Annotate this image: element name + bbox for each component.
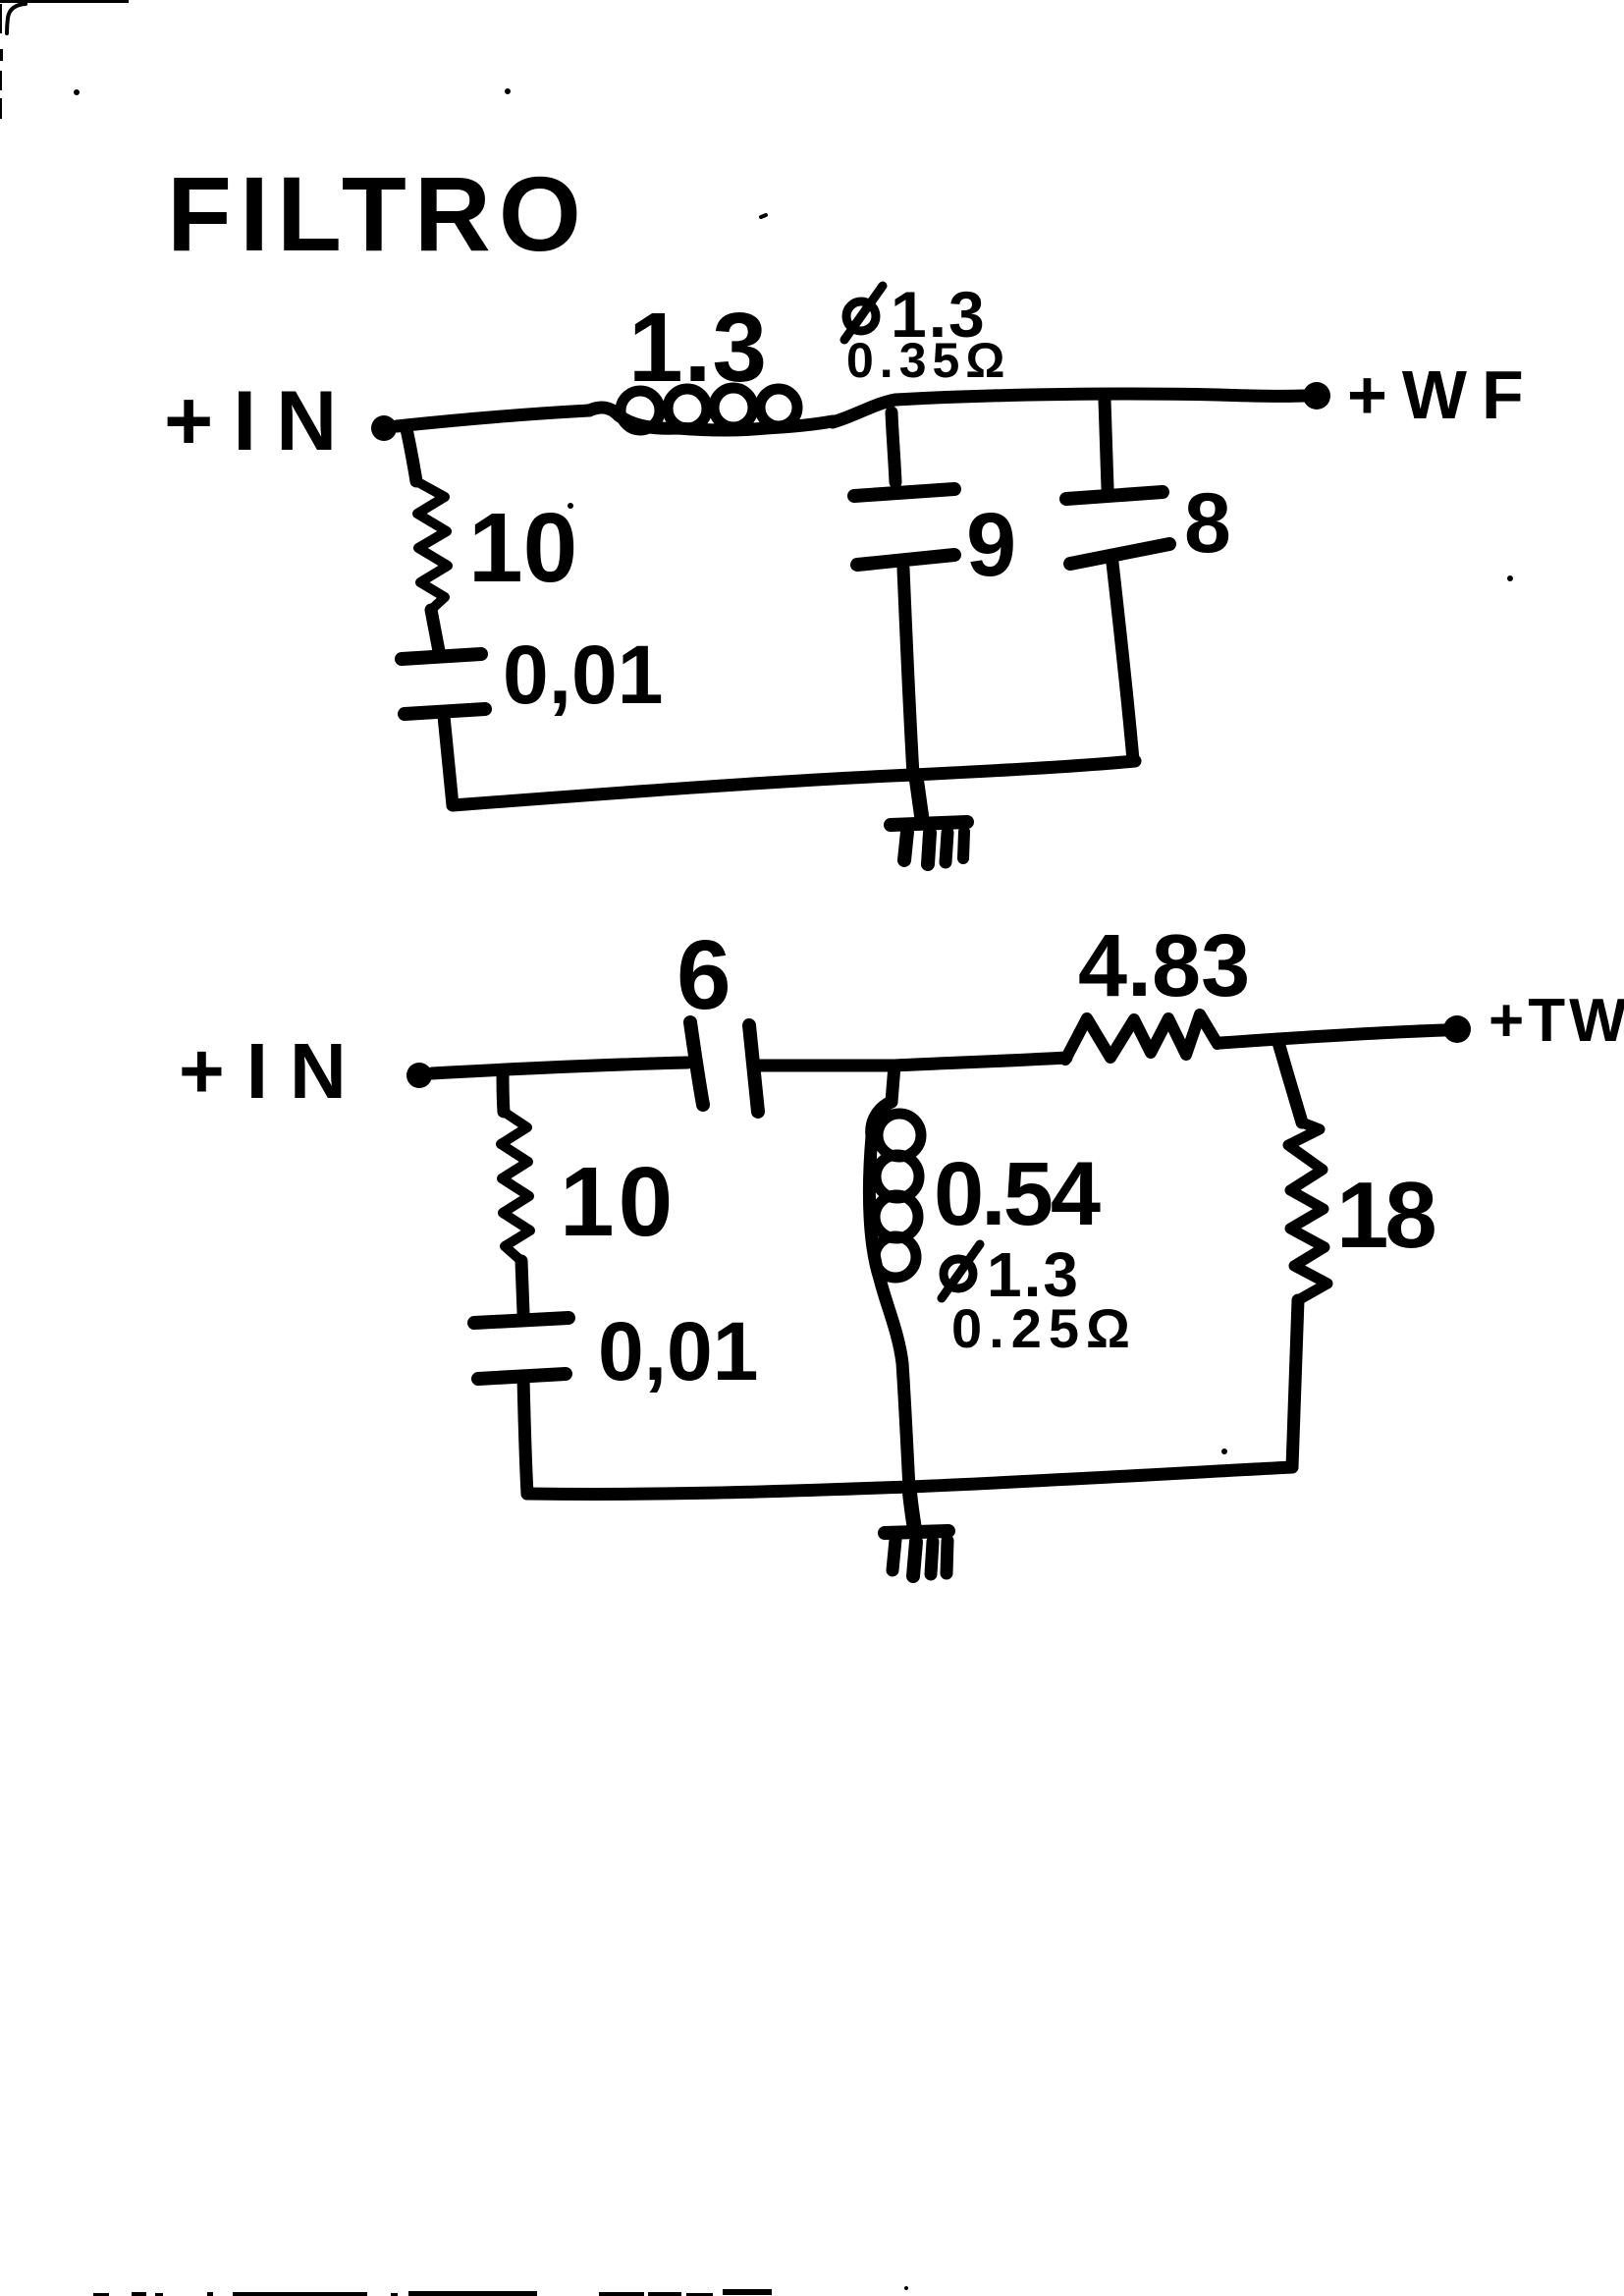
- stray ink dots: [568, 503, 1513, 1454]
- svg-text:8: 8: [1184, 476, 1231, 571]
- svg-text:0,01: 0,01: [503, 629, 664, 721]
- bottom rail (woofer): [453, 761, 1135, 805]
- input terminal dot (tweeter): [406, 1063, 432, 1088]
- wire junction to resistor 4.83: [894, 1058, 1066, 1066]
- svg-text:4.83: 4.83: [1078, 917, 1250, 1015]
- svg-text:0.35Ω: 0.35Ω: [846, 333, 1010, 388]
- svg-text:+IN: +IN: [179, 1027, 368, 1115]
- inductor 0.54 (shunt, tweeter): [869, 1066, 921, 1489]
- ground (woofer): [891, 777, 967, 864]
- svg-text:0.54: 0.54: [934, 1144, 1101, 1244]
- capacitor 0,01 (woofer zobel): [402, 654, 485, 714]
- label diameter 1.3 (tweeter coil): [942, 1239, 1080, 1310]
- wire capacitor to bottom rail (tweeter): [523, 1379, 527, 1494]
- svg-text:+IN: +IN: [164, 374, 356, 468]
- wire resistor to capacitor: [521, 1261, 523, 1313]
- svg-text:10: 10: [560, 1147, 677, 1257]
- output terminal dot +TW: [1443, 1015, 1471, 1043]
- resistor 10 (tweeter shunt): [501, 1112, 530, 1261]
- wire bottom rail up to capacitor 8: [1112, 563, 1133, 760]
- svg-text:10: 10: [468, 493, 577, 603]
- svg-text:0.25Ω: 0.25Ω: [951, 1297, 1137, 1359]
- wire junction to resistor 18: [1277, 1039, 1302, 1122]
- ground (tweeter): [885, 1487, 948, 1576]
- wire input to inductor: [397, 410, 589, 426]
- scan artifact bottom edge: [93, 2286, 908, 2296]
- capacitor 0,01 (tweeter zobel): [474, 1318, 568, 1379]
- svg-text:18: 18: [1336, 1163, 1435, 1268]
- label diameter 1.3: [844, 278, 987, 351]
- svg-text:6: 6: [677, 920, 731, 1030]
- wire resistor to capacitor: [431, 610, 439, 651]
- bottom rail (tweeter): [527, 1467, 1292, 1494]
- wire resistor to output: [1220, 1030, 1444, 1043]
- wire inductor to output: [895, 394, 1304, 400]
- output terminal dot +WF: [1303, 382, 1330, 410]
- wire input down-branch (tweeter): [503, 1070, 504, 1112]
- inductor 1.3 (series, woofer): [589, 388, 895, 430]
- wire capacitor 6 to junction: [757, 1060, 894, 1072]
- svg-text:+WF: +WF: [1347, 356, 1539, 433]
- capacitor 8 (woofer shunt): [1066, 400, 1169, 564]
- input terminal dot (woofer): [371, 415, 397, 441]
- title FILTRO: [167, 154, 766, 273]
- svg-text:0,01: 0,01: [598, 1305, 759, 1397]
- svg-text:9: 9: [966, 495, 1016, 595]
- wire input to capacitor 6: [432, 1063, 687, 1073]
- svg-text:1.3: 1.3: [628, 293, 768, 403]
- resistor 10 (woofer shunt): [416, 481, 448, 610]
- capacitor 9 (woofer shunt): [854, 412, 954, 775]
- wire resistor 18 to bottom rail: [1292, 1300, 1298, 1467]
- wire input down-branch (woofer): [406, 429, 416, 481]
- svg-text:FILTRO: FILTRO: [167, 154, 589, 273]
- wire capacitor to bottom rail: [444, 716, 453, 805]
- scan artifact top-left corner: [0, 0, 511, 119]
- svg-text:+TW: +TW: [1489, 987, 1624, 1055]
- resistor 4.83 (series, tweeter): [1065, 1014, 1218, 1060]
- resistor 18 (shunt, tweeter): [1288, 1122, 1327, 1300]
- capacitor 6 (series, tweeter): [690, 1022, 758, 1112]
